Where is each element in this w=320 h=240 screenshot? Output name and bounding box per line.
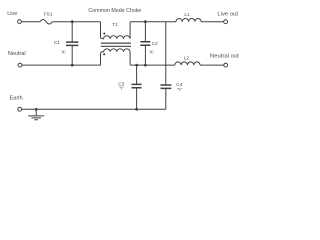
fuse FS1 (40, 19, 52, 24)
junction dot live/C2 (144, 20, 147, 23)
capacitor C3 branch wire top (136, 65, 138, 84)
capacitor C3 plates (132, 84, 142, 87)
svg-text:Neutral: Neutral (8, 51, 26, 57)
ground symbol (28, 109, 44, 120)
terminal Earth (18, 107, 22, 111)
transformer T1 bottom winding (101, 49, 131, 65)
svg-text:'Y': 'Y' (119, 86, 124, 92)
wire L2 to neutral-out (200, 64, 224, 66)
svg-text:L1: L1 (184, 12, 190, 18)
capacitor C1 branch wire bottom (71, 46, 73, 65)
junction dot live/C1 (71, 20, 74, 23)
transformer T1 core lines (101, 43, 131, 46)
svg-text:Earth: Earth (10, 95, 23, 101)
wire fuse to T1 (53, 21, 101, 23)
wire T1 to L2 (130, 64, 175, 66)
svg-text:C1: C1 (54, 40, 60, 46)
capacitor C2 branch wire bottom (144, 46, 146, 65)
capacitor C4 branch wire bottom (165, 89, 167, 109)
inductor L1 (176, 19, 201, 22)
junction dot neutral/C2 (144, 64, 147, 67)
terminal Live out (224, 20, 228, 24)
svg-text:L2: L2 (184, 56, 190, 62)
phase dot T1 bottom (103, 53, 105, 55)
capacitor C1 plates (66, 42, 78, 45)
svg-text:'Y': 'Y' (177, 87, 182, 93)
junction dot neutral/C1 (71, 64, 74, 67)
junction dot earth/C3 (135, 108, 138, 111)
wire L1 to live-out (201, 21, 223, 23)
capacitor C2 plates (140, 42, 150, 46)
transformer T1 top winding (101, 22, 131, 39)
capacitor C3 branch wire bottom (136, 88, 138, 109)
capacitor C4 branch wire top (165, 22, 167, 85)
svg-text:'X': 'X' (61, 49, 66, 55)
junction dot neutral/C3 (135, 64, 138, 67)
inductor L2 (175, 62, 200, 65)
terminal Live (18, 20, 22, 24)
phase dot T1 top (103, 33, 105, 35)
svg-text:FS1: FS1 (44, 12, 53, 18)
terminal Neutral (18, 63, 22, 67)
capacitor C4 plates (161, 85, 172, 88)
capacitor C1 branch wire top (71, 22, 73, 42)
terminal Neutral out (224, 63, 228, 67)
earth rail wire (22, 108, 166, 110)
wire live-in to fuse (22, 21, 41, 23)
svg-text:C2: C2 (152, 41, 158, 47)
neutral rail wire in (22, 64, 101, 66)
svg-text:Neutral out: Neutral out (210, 53, 239, 59)
svg-text:C4: C4 (176, 82, 182, 88)
svg-text:Live: Live (7, 11, 17, 17)
junction dot earth/ground (35, 108, 38, 111)
wire T1 to L1 (130, 21, 176, 23)
svg-text:Live out: Live out (217, 12, 238, 18)
svg-text:'X': 'X' (149, 50, 154, 56)
capacitor C2 branch wire top (144, 22, 146, 42)
svg-text:Common Mode Choke: Common Mode Choke (88, 8, 141, 14)
svg-text:T1: T1 (112, 22, 118, 28)
